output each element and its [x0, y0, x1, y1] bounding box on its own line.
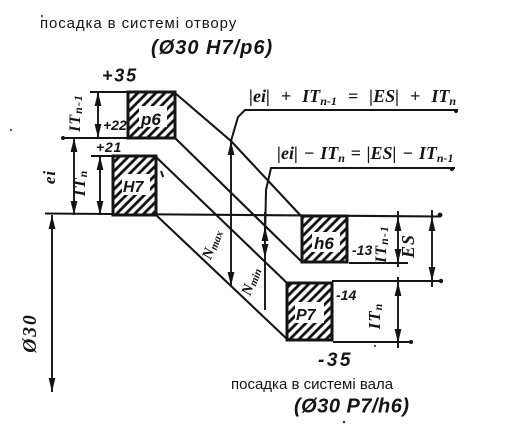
svg-text:+22: +22 — [103, 117, 127, 133]
svg-text:р6: р6 — [140, 110, 161, 129]
svg-text:Ø30: Ø30 — [20, 313, 41, 354]
svg-text:ES: ES — [398, 234, 418, 259]
svg-text:-35: -35 — [318, 350, 353, 371]
svg-text:посадка в системі отвору: посадка в системі отвору — [40, 15, 237, 32]
svg-text:|ei| − ITn = |ES| − ITn-1: |ei| − ITn = |ES| − ITn-1 — [277, 143, 454, 165]
svg-text:+35: +35 — [102, 66, 138, 86]
svg-text:|ei| + ITn-1 = |ES| + ITn: |ei| + ITn-1 = |ES| + ITn — [249, 86, 456, 108]
svg-text:+21: +21 — [96, 139, 122, 155]
svg-text:Н7: Н7 — [123, 179, 145, 196]
svg-text:(Ø30 Н7/р6): (Ø30 Н7/р6) — [151, 37, 273, 59]
svg-text:Р7: Р7 — [296, 307, 317, 324]
svg-text:-14: -14 — [336, 287, 356, 303]
svg-text:посадка в системі вала: посадка в системі вала — [231, 376, 394, 393]
svg-text:h6: h6 — [314, 234, 334, 253]
svg-text:-13: -13 — [352, 242, 372, 258]
svg-text:еі: еі — [40, 170, 59, 184]
svg-text:(Ø30 Р7/h6): (Ø30 Р7/h6) — [294, 396, 410, 418]
